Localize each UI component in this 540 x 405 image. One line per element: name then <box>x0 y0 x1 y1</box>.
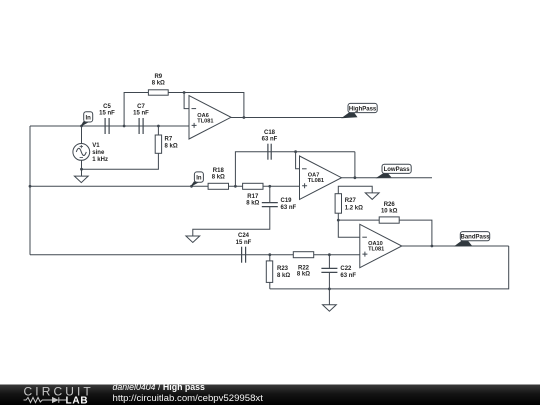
wire R27 node to R26 <box>338 219 379 221</box>
wire V1 to R7 bottom <box>82 153 159 169</box>
node V1 top / In anchor <box>80 125 83 128</box>
svg-text:R18: R18 <box>213 168 225 174</box>
resistor R17 <box>243 183 263 189</box>
wire R23 top leg <box>269 255 271 261</box>
wire V1 bottom lead <box>81 160 83 169</box>
svg-text:C7: C7 <box>137 104 145 110</box>
ground under C19 <box>186 236 200 243</box>
flag HighPass <box>341 103 377 118</box>
svg-text:8 kΩ: 8 kΩ <box>246 201 259 207</box>
wire C19 top stem <box>269 186 271 202</box>
svg-text:C24: C24 <box>238 233 250 239</box>
node In2 anchor <box>190 185 193 188</box>
svg-text:R22: R22 <box>298 265 310 271</box>
svg-text:In: In <box>86 115 92 121</box>
svg-text:TL081: TL081 <box>308 178 324 184</box>
wire C18 feedback right leg <box>354 152 356 178</box>
capacitor C5 <box>105 118 109 134</box>
wire ground stem under V1 <box>81 169 83 176</box>
wire R9 left leg <box>124 93 148 127</box>
flag LowPass <box>376 164 412 178</box>
wire C22 bottom stem <box>328 272 330 289</box>
svg-text:R17: R17 <box>247 194 259 200</box>
resistor R7 <box>155 135 161 153</box>
wire OA10 inverting input <box>338 220 360 237</box>
svg-text:C5: C5 <box>103 104 111 110</box>
svg-text:BandPass: BandPass <box>460 235 490 241</box>
resistor R9 <box>148 90 168 95</box>
node C18 OA7 minus tap <box>294 150 297 153</box>
wire OA6 inverting input <box>184 93 189 109</box>
node R26 BandPass line <box>431 245 434 248</box>
resistor R22 <box>293 252 313 258</box>
svg-text:sine: sine <box>92 150 105 156</box>
node R18-R17 C18 tap <box>234 185 237 188</box>
V1 label <box>92 143 108 163</box>
ground right of R27 <box>365 193 379 200</box>
svg-text:R23: R23 <box>277 266 289 272</box>
svg-text:R9: R9 <box>154 74 162 80</box>
node R27 R26 OA10 minus <box>337 219 340 222</box>
node left bus line2 <box>29 185 32 188</box>
op-amp OA7 <box>300 156 342 199</box>
wire BandPass feedback right leg <box>270 246 509 289</box>
wire V1 top lead <box>81 126 83 144</box>
resistor R26 <box>379 217 399 223</box>
capacitor C24 <box>242 247 246 263</box>
svg-text:15 nF: 15 nF <box>133 111 149 117</box>
wire C22 top stem <box>328 255 330 269</box>
node OA6 output feedback <box>243 116 246 119</box>
wire C18 feedback left leg <box>235 152 355 187</box>
wire main line 3 (input to OA10 +) <box>30 254 360 256</box>
svg-text:LowPass: LowPass <box>384 167 411 173</box>
resistor R18 <box>208 183 228 189</box>
svg-text:TL081: TL081 <box>368 247 384 253</box>
capacitor C19 <box>262 203 278 207</box>
wire C19 bottom to ground <box>193 207 270 236</box>
wire R27 bottom leg <box>337 213 339 220</box>
node R9 left tap <box>123 125 126 128</box>
wire R27 top to ground <box>338 186 372 193</box>
capacitor C18 <box>268 144 271 160</box>
capacitor C7 <box>139 118 143 134</box>
svg-text:63 nF: 63 nF <box>281 205 297 211</box>
wire OA7 output LowPass line <box>342 177 433 179</box>
flag In (stage 1) <box>82 112 93 127</box>
svg-text:8 kΩ: 8 kΩ <box>277 273 290 279</box>
wire main line 1 (input to OA6 +) <box>30 125 189 127</box>
svg-text:R27: R27 <box>345 198 357 204</box>
node C22 top <box>328 253 331 256</box>
capacitor C22 <box>321 268 337 272</box>
wire R7 top lead <box>157 126 159 135</box>
svg-text:http://circuitlab.com/cebpv529: http://circuitlab.com/cebpv529958xt <box>113 393 264 404</box>
svg-text:daniel0404 / High pass: daniel0404 / High pass <box>113 382 206 392</box>
wire OA6 output HighPass line <box>231 117 346 119</box>
svg-text:C18: C18 <box>264 130 276 136</box>
voltage source V1 <box>73 144 90 161</box>
svg-text:C22: C22 <box>340 266 352 272</box>
node OA7 output feedback <box>354 176 357 179</box>
svg-text:C19: C19 <box>281 198 293 204</box>
svg-text:R7: R7 <box>165 137 173 143</box>
svg-text:R26: R26 <box>384 202 396 208</box>
node C22 bottom / ground / feedback <box>328 288 331 291</box>
wire main line 2 (input to OA7 +) <box>30 185 300 187</box>
footer bar <box>0 385 540 405</box>
flag BandPass <box>454 232 490 247</box>
svg-text:HighPass: HighPass <box>349 106 377 112</box>
flag In (stage 2) <box>192 172 204 187</box>
svg-text:63 nF: 63 nF <box>340 273 356 279</box>
svg-text:15 nF: 15 nF <box>99 111 115 117</box>
svg-text:1.2 kΩ: 1.2 kΩ <box>345 205 363 211</box>
svg-text:8 kΩ: 8 kΩ <box>152 80 165 86</box>
footer logo resistor-diode-LAB <box>24 397 67 403</box>
node R23 top <box>268 253 271 256</box>
node R9 right / OA6 minus <box>183 91 186 94</box>
svg-text:LAB: LAB <box>66 395 89 405</box>
node R7 top <box>157 125 160 128</box>
svg-text:8 kΩ: 8 kΩ <box>212 174 225 180</box>
wire left vertical bus <box>29 126 31 255</box>
ground bottom center <box>323 305 337 312</box>
op-amp OA10 <box>360 224 402 267</box>
svg-text:15 nF: 15 nF <box>236 240 252 246</box>
svg-text:8 kΩ: 8 kΩ <box>165 144 178 150</box>
wire R23 bottom leg <box>269 282 271 289</box>
svg-text:In: In <box>196 176 202 182</box>
svg-text:10 kΩ: 10 kΩ <box>381 209 398 215</box>
wire R26 right to BandPass line <box>399 220 432 246</box>
svg-text:63 nF: 63 nF <box>262 136 278 142</box>
svg-text:8 kΩ: 8 kΩ <box>297 272 310 278</box>
wire R9 right to OA6 output <box>168 93 244 118</box>
svg-text:V1: V1 <box>92 143 100 149</box>
svg-text:1 kHz: 1 kHz <box>92 157 108 163</box>
wire ground stem bottom center <box>328 289 330 305</box>
wire OA7 inverting input <box>296 152 300 169</box>
node V1 bottom <box>80 168 83 171</box>
op-amp OA6 <box>189 96 231 139</box>
svg-text:TL081: TL081 <box>197 119 213 125</box>
resistor R27 <box>335 194 341 214</box>
wire OA10 output BandPass line <box>402 245 509 247</box>
ground under V1 <box>74 176 88 183</box>
resistor R23 <box>266 261 272 283</box>
node R17-C19 <box>268 185 271 188</box>
